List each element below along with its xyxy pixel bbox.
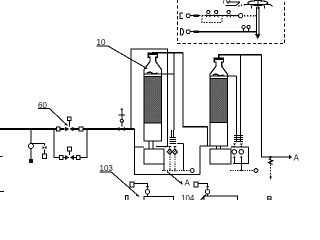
svg-text:A: A: [294, 154, 300, 163]
svg-text:104: 104: [181, 194, 195, 200]
svg-text:A: A: [185, 179, 191, 188]
svg-text:B: B: [267, 195, 273, 200]
svg-text:70: 70: [222, 0, 231, 5]
